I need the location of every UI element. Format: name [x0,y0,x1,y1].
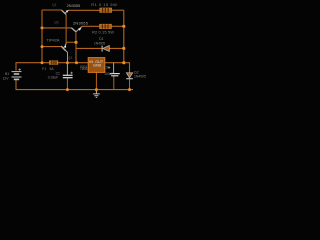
capacitor C1 plates [63,75,73,77]
svg-text:GND: GND [93,64,102,68]
transistor Q2 2N3055 glyph [71,27,82,32]
wire: Q3 base wire [42,46,61,48]
wire: Q2 emitter to R2 [82,25,100,27]
wire: Q1 collector wire [42,9,62,11]
svg-text:Q2: Q2 [54,21,59,25]
svg-text:Q1: Q1 [52,3,57,7]
wire: D1 row [76,47,124,49]
wire: Q1 emitter to R1 [68,9,100,11]
wire: right output bus [123,10,125,63]
svg-text:0.33uF: 0.33uF [48,76,59,80]
svg-text:Q3: Q3 [68,56,73,60]
wire: C1 bottom lead [66,78,68,90]
wire: regulator OUT [105,63,130,73]
svg-text:7805: 7805 [80,67,88,71]
wire: Q3 emitter drop [67,52,69,62]
transistor Q1 2N3055 glyph [62,10,69,14]
regulator pin text [89,60,104,68]
wire: D2 bottom lead [129,79,131,89]
ground symbol [93,90,100,98]
svg-text:R2 0.15 5W: R2 0.15 5W [92,30,114,35]
wire: Q2 collector wire [42,27,71,29]
svg-text:TIP42A: TIP42A [47,38,60,43]
wire: R2 right to bus [111,25,124,27]
svg-text:2N3055: 2N3055 [67,3,81,8]
wire: battery top to regulator IN [16,63,88,71]
svg-text:1N4005: 1N4005 [134,75,146,79]
svg-text:1N4005: 1N4005 [94,41,105,45]
battery B1 [12,72,22,80]
junction dots [41,25,132,91]
wire: node down to D1 row and IN wire [75,42,77,62]
wire: base bus from Q1 down to Q3 collector row [66,14,76,42]
regulator RG1 7805 box [88,58,105,73]
wire: battery bottom to rail [16,80,133,90]
transistor Q3 TIP42A glyph [61,43,67,52]
svg-text:12V: 12V [3,77,10,81]
svg-text:C2: C2 [104,65,108,69]
wire: C2 bottom lead [113,76,115,89]
Q2 emitter arrowhead [78,28,81,31]
svg-text:5A: 5A [50,67,55,71]
Q1 emitter arrowhead [66,10,69,13]
resistor R1 body [100,8,112,12]
resistor R2 body [100,24,112,28]
wire: Q2 base drop to node [75,32,77,43]
battery plus mark [19,68,21,70]
capacitor C1 plus mark [70,72,72,74]
wire: C1 top lead [66,63,68,75]
svg-text:100uF: 100uF [104,72,113,76]
svg-text:F1: F1 [42,67,46,71]
Q3 emitter arrowhead (PNP, points to bar) [63,45,66,47]
diode D2 1N4005 (pointing down) [126,73,133,79]
wire: left V+ bus x=42 [41,10,43,63]
capacitor C2 plates [110,74,120,76]
labels [3,2,146,81]
wire: R1 right to right bus [112,9,124,11]
wire: regulator GND drop [95,73,97,90]
wire: C2 top lead [113,63,115,73]
capacitor C2 plus mark [108,66,110,68]
fuse F1 body on input wire [49,61,57,65]
wire: Q3 collector link [65,42,67,43]
diode D1 1N4005 (pointing left) [102,46,109,52]
svg-text:B1: B1 [5,72,9,76]
svg-text:R1 0.15 5W: R1 0.15 5W [91,2,117,7]
svg-text:2N3055: 2N3055 [73,21,88,26]
